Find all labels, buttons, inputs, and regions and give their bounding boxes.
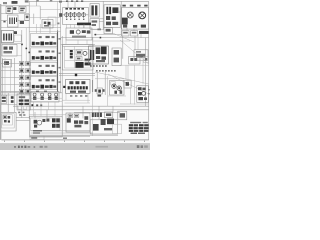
vertical bus x93 — [92, 37, 94, 92]
wire right rail y65 — [120, 65, 149, 80]
switch box S1 — [122, 31, 129, 36]
pump cluster PM2 — [101, 119, 114, 125]
motor M2 symbol — [127, 12, 133, 18]
wire left column — [3, 28, 27, 112]
bottom section box 1 — [30, 116, 63, 137]
fuse F3 — [11, 100, 14, 103]
junction node J5 — [63, 86, 65, 88]
connector J1 box — [8, 15, 19, 27]
bus wire net E horizontal — [1, 94, 30, 96]
vertical bus heavy x57 — [57, 31, 59, 93]
connector block J2 — [90, 4, 99, 18]
status bar middle text — [96, 146, 109, 148]
power module diodes — [106, 16, 116, 20]
terminal box TB1 — [42, 17, 56, 28]
junction node J9 — [100, 37, 102, 39]
charger low row — [138, 97, 147, 100]
relay K1 box — [6, 6, 13, 13]
wire battery rails — [1, 93, 29, 118]
pump valve marks — [104, 128, 112, 130]
sheet background — [0, 0, 150, 150]
connector P3 pair — [1, 76, 30, 80]
top right box — [122, 8, 149, 30]
driver module A4 resistors — [39, 79, 55, 81]
vertical bus x121 — [120, 1, 122, 36]
wire driver rails — [95, 78, 124, 80]
sheet top rule — [29, 0, 149, 2]
wire ic rails — [1, 44, 22, 56]
oscillator ic row — [68, 86, 88, 89]
inverter box — [89, 46, 109, 64]
IC U1 side mark — [14, 31, 17, 34]
sensor box B1 — [129, 57, 141, 65]
wire right-low horizontals — [108, 96, 149, 104]
capacitor C1 — [20, 21, 24, 24]
pump sub box — [113, 124, 122, 133]
net label ticks — [19, 114, 25, 116]
status bar right buttons — [137, 145, 148, 148]
inverter capacitors — [90, 50, 94, 60]
wire bottom links — [16, 120, 90, 136]
notes line 3 — [129, 130, 149, 132]
bottom wire rails — [30, 131, 118, 135]
driver module A1 resistors — [39, 36, 55, 38]
sheet tick label — [63, 137, 67, 139]
cranking dark cluster H2 — [52, 118, 60, 127]
fuse bar F1 — [139, 31, 149, 34]
terminal T1 — [3, 21, 5, 23]
input arrow X1 — [59, 13, 62, 17]
transistor Q5 pads — [95, 89, 105, 96]
valve cluster V1 — [4, 116, 10, 123]
bus wire net C horizontal — [74, 111, 120, 113]
vertical bus x103 — [102, 1, 104, 30]
power module lower parts — [106, 22, 118, 26]
driver module A3 component row — [32, 70, 56, 74]
driver module A4 net tick — [58, 81, 60, 83]
wire left risers — [5, 58, 11, 95]
transistor Q4 marks — [114, 90, 122, 93]
transformer bank box — [63, 8, 89, 25]
junction node J6 — [75, 74, 77, 77]
fuse F2 — [11, 96, 14, 99]
charger mid row — [138, 92, 146, 96]
filter box FL1 — [66, 28, 92, 40]
inverter choke — [101, 47, 107, 55]
pump unit P1 — [3, 115, 6, 118]
diagonal feeder 1 — [95, 72, 149, 84]
regulator VR1 — [76, 50, 82, 55]
regulator VR2 — [76, 57, 82, 61]
net name ticks top — [36, 0, 52, 1]
wire charger drops — [131, 65, 135, 105]
oscillator pin labels — [70, 95, 87, 97]
relay K2 box — [19, 6, 26, 12]
wire bottom mid vertical — [92, 92, 94, 136]
resistor R9 — [93, 29, 104, 31]
wire right risers — [128, 34, 143, 84]
driver module A4 box — [31, 77, 58, 90]
terminal strip marks — [123, 25, 146, 28]
wire mid-low horizontals — [30, 98, 62, 101]
bus wire net D horizontal — [1, 92, 62, 94]
bottom left inner box 2 — [3, 115, 13, 125]
wire top area verticals — [37, 1, 58, 33]
top right labels — [122, 5, 147, 7]
IC U1 box — [2, 31, 14, 43]
control unit inner wires — [65, 46, 92, 68]
battery box — [1, 95, 7, 103]
IC U1 pins — [3, 34, 12, 41]
driver module A2 component row — [32, 56, 56, 60]
switch box S2 — [131, 31, 138, 36]
sheet right border — [148, 2, 150, 140]
panel sub boxes — [68, 114, 79, 117]
inverter diodes — [96, 56, 106, 62]
panel right marks — [84, 116, 88, 124]
bottom left inner box — [2, 114, 14, 128]
power module PM0 box — [104, 5, 120, 28]
driver module A3 resistors — [39, 65, 55, 67]
notes line 4 — [131, 133, 145, 135]
oscillator lower row — [70, 91, 86, 93]
driver module A1 component row — [32, 42, 56, 46]
contactor block — [122, 18, 128, 25]
diagonal feeder 3 — [120, 40, 149, 64]
motor M3 symbol — [139, 12, 146, 19]
net tick TB1 — [57, 23, 60, 25]
vertical bus x62 — [61, 36, 63, 118]
vertical bus x22 — [21, 30, 23, 118]
relay box K4 — [104, 28, 112, 34]
switch bank labels — [36, 91, 47, 92]
wire driver verticals — [97, 72, 107, 106]
control unit box — [63, 45, 94, 70]
bus wire net B horizontal — [29, 109, 149, 111]
inverter pin ticks — [90, 65, 107, 66]
aux box U5 — [118, 111, 127, 120]
connector P5 pair — [1, 89, 30, 93]
connector P4 pair — [1, 83, 30, 87]
driver module A2 net tick — [58, 53, 60, 55]
notes line 2 — [129, 127, 149, 129]
oscillator box — [66, 80, 91, 94]
wire k4 diagonal — [112, 33, 134, 42]
transformer coils T2-T6 — [63, 12, 89, 18]
wire switch bank rail — [30, 114, 66, 116]
oscillator caps — [69, 81, 85, 84]
relay box K5 — [134, 50, 148, 60]
diagonal feeder 2 — [108, 74, 149, 94]
driver module A2 resistors — [39, 50, 55, 52]
transistor Q3 — [117, 86, 121, 90]
connector P1 pair — [1, 62, 30, 66]
wire riser top mid — [68, 1, 84, 28]
rectifier bar REC1 — [77, 23, 91, 26]
switch bank box — [31, 92, 59, 103]
switch bank elements — [33, 93, 58, 100]
power module transformer — [112, 7, 118, 13]
wire mid risers — [66, 40, 87, 45]
inverter transformer X2 — [96, 47, 101, 54]
wire right column — [123, 36, 135, 59]
bottom section box 3 — [90, 120, 117, 134]
solenoid SV1 — [67, 118, 71, 122]
pump motor PM1 — [93, 124, 99, 131]
vertical bus x60 — [60, 1, 62, 93]
wire J2 links — [99, 19, 104, 22]
power transistor Q1 — [75, 62, 83, 68]
relay K3 box — [25, 14, 30, 20]
vertical bus x145 — [145, 38, 147, 107]
wire mid horizontals — [61, 45, 95, 47]
charger side ticks — [148, 89, 150, 94]
sense box SB1 — [3, 60, 12, 68]
notes line 1 — [129, 124, 149, 126]
junction node J7 — [31, 104, 33, 106]
junction node J8 — [95, 34, 97, 36]
wire top right drops — [127, 28, 141, 38]
sheet bottom rule — [2, 139, 149, 141]
driver module A3 box — [31, 62, 58, 75]
notes header — [130, 122, 148, 123]
wire staircase rails — [62, 93, 90, 103]
wire lower-mid horizontals — [59, 74, 95, 76]
coil L5 — [83, 51, 87, 55]
wire to motor — [118, 11, 122, 13]
wire top mid verticals — [34, 1, 50, 33]
status bar left buttons — [14, 146, 47, 148]
diode bridge DB1 — [85, 59, 91, 66]
transistor Q2 — [112, 84, 116, 88]
wire tb1 rails — [29, 18, 60, 32]
label L2 — [12, 1, 18, 4]
terminal row TB2 — [92, 113, 102, 117]
driver box U4 — [110, 81, 125, 96]
solenoid SV2 cluster — [74, 120, 83, 127]
vertical bus x29 — [28, 1, 30, 119]
transformer drop wires — [67, 24, 84, 28]
bottom section box 2 — [66, 113, 90, 132]
connector block J3 — [90, 19, 99, 30]
power module capacitor bars — [106, 7, 111, 14]
rule tick marks — [4, 141, 145, 142]
driver module A1 net tick — [58, 38, 60, 40]
wire top mid rails — [29, 6, 60, 10]
charger box — [137, 86, 149, 103]
bus wire net A horizontal — [13, 105, 149, 107]
pin tick row 2 — [96, 70, 116, 71]
module M1 box — [2, 45, 17, 57]
wire rail y41 — [92, 40, 130, 42]
transformer lower dots — [66, 19, 84, 20]
power supply box — [17, 94, 30, 110]
label L1 — [3, 2, 7, 4]
power box ticks — [18, 112, 24, 114]
junction dots left buses — [21, 44, 30, 54]
connector P2 pair — [1, 69, 30, 73]
charger top row — [138, 87, 146, 90]
driver module A2 box — [31, 48, 58, 61]
cranking cluster H1 — [34, 119, 50, 128]
status bar strip — [0, 144, 150, 150]
diode D1 — [13, 7, 16, 10]
bottom left outer box — [1, 112, 16, 131]
transformer labels — [65, 8, 84, 10]
capacitor stack C5 — [70, 50, 73, 58]
meter box — [104, 112, 112, 118]
IC U1 aux box — [14, 35, 21, 41]
sheet number label — [30, 136, 44, 139]
wire osc right — [92, 80, 94, 92]
driver module A1 box — [31, 34, 58, 47]
driver module A4 component row — [32, 85, 56, 89]
switch bank ticks — [36, 104, 42, 106]
wire switch bank drops — [34, 102, 56, 116]
label L3 — [25, 0, 29, 2]
wire right-mid horizontals — [61, 35, 149, 38]
driver module A3 net tick — [58, 67, 60, 69]
wire top-left rails — [1, 6, 61, 28]
transistor Q5 box — [97, 88, 102, 94]
wire bottom risers — [35, 106, 113, 119]
top rule tick labels — [59, 0, 83, 2]
rail text labels — [33, 130, 42, 134]
aux relay K6 — [124, 80, 131, 88]
sheet left border — [0, 4, 2, 140]
aux box U3 — [112, 48, 121, 66]
sensor aux symbol — [144, 57, 149, 63]
